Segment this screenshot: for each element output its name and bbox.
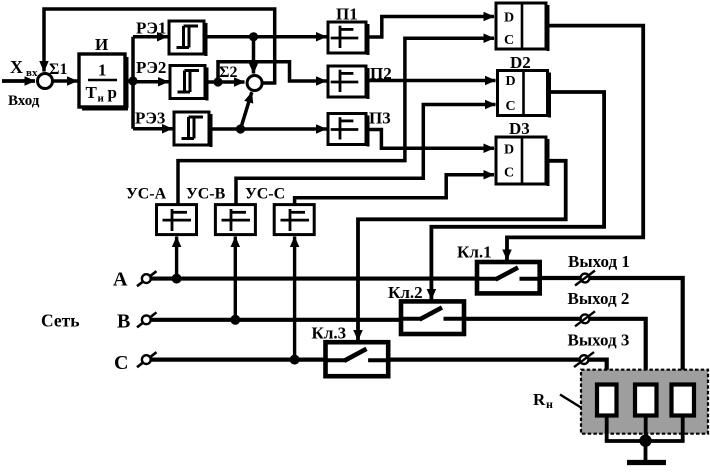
wire: D1 output to Кл.1 control [507,26,643,260]
label В [117,311,130,333]
wire: D3 output to Кл.3 control [358,161,566,341]
svg-text:D: D [505,74,515,89]
svg-text:C: C [505,99,515,114]
svg-text:р: р [108,83,117,102]
label С [114,352,128,374]
wire: phase C up into УС-С [293,237,296,360]
svg-text:R: R [533,390,546,409]
wire: Выход 3 to load [388,360,607,386]
label И [95,35,108,54]
label П3 [369,109,391,128]
svg-text:Кл.1: Кл.1 [457,243,492,262]
label РЭ2 [136,58,166,77]
svg-text:и: и [98,93,105,105]
relay element РЭ1 [169,21,208,56]
label D2 [510,53,531,72]
ground [627,441,666,463]
svg-text:А: А [113,269,128,291]
flip-flop D1 [496,3,550,51]
label Вход [8,93,40,109]
sync block УС-А [157,205,197,235]
wire: junction into Σ2 left [218,80,245,84]
terminal Выход 1 [575,271,595,286]
label Выход 3 [568,331,630,350]
phase line B [142,315,401,324]
threshold block П3 [328,114,370,147]
junction dot phase C to УС-С [290,355,300,365]
label Выход 1 [568,252,630,271]
junction dot phase A to УС-А [172,274,182,284]
svg-text:н: н [546,397,553,411]
wire: П2 output to D2 D input [366,79,496,83]
label П1 [336,5,358,24]
phase line C [142,355,326,364]
svg-text:И: И [95,35,108,54]
summing node Σ1 [38,74,53,89]
svg-text:Выход 2: Выход 2 [568,289,630,308]
junction dot at И output [128,76,137,85]
svg-text:C: C [504,166,514,181]
label Rн [533,390,553,411]
wire: РЭ1 output to П1 [207,35,327,39]
label РЭ1 [136,19,166,38]
svg-text:УС-С: УС-С [245,186,285,203]
wire: branch to РЭ3 [133,127,173,131]
label Кл.2 [388,283,423,302]
label УС-С [245,186,285,203]
wire: РЭ2 output to junction [208,80,218,84]
wire: УС-С output to D3 C input [295,175,494,205]
wire: down into Σ2 top [252,37,256,74]
wire: D2 output to Кл.2 control [431,92,604,300]
wire: input into summing node S1 [2,79,35,83]
resistor load 3 [672,385,695,416]
summing node Σ2 [247,76,262,91]
switch Кл.2 [401,301,464,334]
wire: П1 output to D1 D input [366,17,494,38]
svg-text:УС-В: УС-В [186,186,226,203]
integrator block И (1/Tи p) [79,54,129,111]
svg-text:С: С [114,352,128,374]
svg-text:РЭ3: РЭ3 [135,109,165,128]
node: branch vertical after И [131,37,135,129]
svg-text:Т: Т [86,83,98,102]
wire: И output to branch node [128,79,135,83]
svg-text:Выход 3: Выход 3 [568,331,630,350]
pointer line from Rн to load box [560,395,581,408]
svg-text:вх: вх [26,67,38,79]
svg-text:Σ2: Σ2 [219,64,237,81]
wire: Выход 2 to load [464,319,646,386]
wire: РЭ2 bypass over Σ2 to П2 [218,62,327,82]
phase line A terminal [137,271,157,286]
svg-text:В: В [117,311,130,333]
svg-text:C: C [504,33,514,48]
label Кл.1 [457,243,492,262]
phase line B terminal [137,312,157,327]
label А [113,269,128,291]
svg-text:Сеть: Сеть [41,311,79,331]
flip-flop D2 [498,71,552,118]
label Σ1 [49,61,67,78]
wire: Выход 1 to load [540,278,683,386]
wire: Σ2 output feedback to Σ1 [44,9,275,83]
threshold block П2 [328,66,370,99]
sync block УС-В [215,205,255,235]
label D3 [509,119,530,138]
relay element РЭ3 [174,112,213,147]
junction dot on РЭ2 output [213,77,222,86]
label Кл.3 [312,324,347,343]
phase line A [142,274,477,283]
junction dot on РЭ1 output [249,32,258,41]
svg-text:П3: П3 [369,109,391,128]
wire: phase B up into УС-В [234,237,237,320]
terminal Выход 2 [575,311,595,326]
sync block УС-С [274,205,314,235]
wire: Σ1 to integrator И [53,79,78,83]
label П2 [370,64,392,83]
wire: resistor bottoms to common bus [605,416,685,441]
relay element РЭ2 [170,66,209,101]
label РЭ3 [135,109,165,128]
switch Кл.1 [477,262,540,293]
wire: П3 output to D3 D input [366,130,494,149]
svg-text:1: 1 [98,61,107,80]
svg-text:D3: D3 [509,119,530,138]
wire: УС-А output to D1 C input [178,38,494,204]
svg-text:Х: Х [10,57,23,77]
label УС-А [126,186,167,203]
phase line C terminal [137,352,157,367]
svg-text:УС-А: УС-А [126,186,167,203]
resistor load 1 [597,385,617,416]
wire: branch to РЭ2 [133,80,169,84]
label X вх [10,57,38,79]
wire: diagonal into Σ2 bottom [241,92,252,129]
label Σ2 [219,64,237,81]
terminal Выход 3 [574,352,594,367]
svg-text:Кл.3: Кл.3 [312,324,347,343]
svg-text:D: D [504,143,514,158]
wire: branch to РЭ1 [133,35,168,39]
svg-text:Вход: Вход [8,93,40,109]
label УС-В [186,186,226,203]
wire: phase A up into УС-А [175,237,178,279]
svg-text:РЭ1: РЭ1 [136,19,166,38]
wire: РЭ3 output to П3 [212,127,327,131]
junction dot common load node [639,435,651,447]
label Выход 2 [568,289,630,308]
junction dot phase B to УС-В [230,315,240,325]
switch Кл.3 [326,342,389,376]
wire: УС-В output to D2 C input [236,105,496,205]
svg-text:D: D [504,11,514,26]
load enclosure (dashed gray box) [581,370,708,434]
label Сеть [41,311,79,331]
threshold block П1 [328,22,370,55]
svg-text:Выход 1: Выход 1 [568,252,630,271]
flip-flop D3 [496,137,550,186]
resistor load 2 [635,385,657,416]
svg-text:РЭ2: РЭ2 [136,58,166,77]
junction dot on РЭ3 output [236,124,245,133]
